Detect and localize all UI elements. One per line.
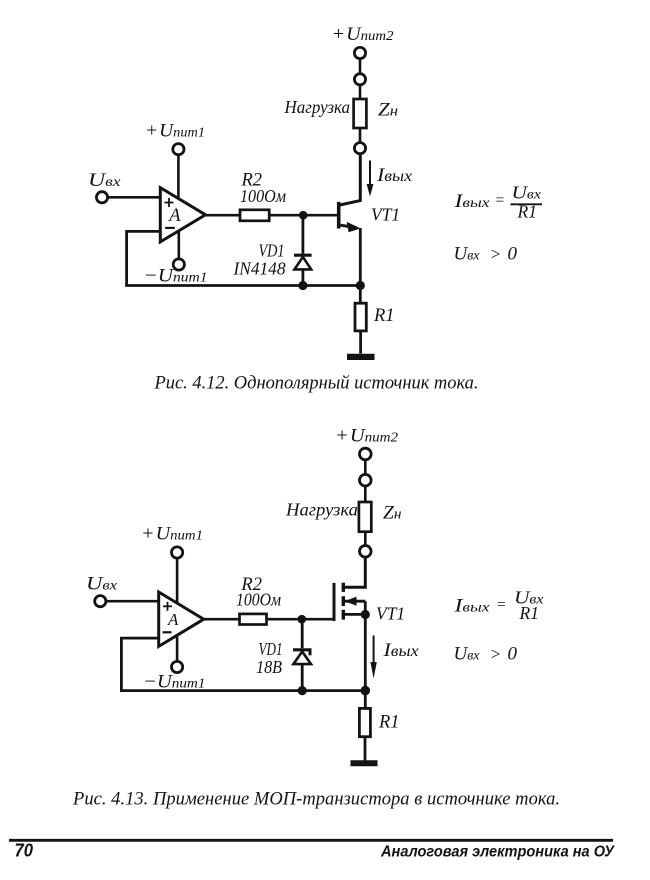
svg-text:Аналоговая электроника на ОУ: Аналоговая электроника на ОУ	[380, 844, 615, 861]
junction dot source-rail (fig 4.13)	[361, 686, 371, 696]
wire R1 to ground (fig 4.12)	[359, 331, 362, 354]
transistor VT1 base bar (fig 4.12)	[337, 202, 341, 229]
svg-text:Iвых: Iвых	[382, 640, 418, 661]
wire emitter down to rail (fig 4.12)	[359, 228, 362, 286]
caption Рис. 4.12	[154, 374, 479, 394]
wire to Zн (fig 4.13)	[364, 486, 367, 502]
wire rail to R1 (fig 4.13)	[364, 691, 367, 709]
svg-text:100Ом: 100Ом	[236, 590, 281, 610]
label R1 (fig 4.13)	[378, 713, 400, 733]
wire source down to rail (fig 4.13)	[364, 614, 367, 690]
wire junction to zener (fig 4.13)	[301, 619, 304, 648]
terminal +Uпит2 (fig 4.12)	[354, 47, 365, 58]
svg-text:VD1: VD1	[259, 241, 285, 261]
label Uвх (fig 4.12)	[88, 170, 121, 191]
op-amp A triangle (fig 4.13)	[159, 592, 204, 646]
transistor VT1 body lead with arrow (fig 4.13)	[345, 597, 365, 615]
arrow Iвых (fig 4.12)	[367, 161, 374, 197]
label +Uпит2 (fig 4.12)	[332, 24, 394, 45]
junction dot node gate (fig 4.13)	[298, 615, 307, 624]
transistor VT1 emitter with arrow (fig 4.12)	[341, 222, 361, 233]
terminal +Uпит1 (fig 4.13)	[172, 547, 183, 558]
terminal -Uпит1 (fig 4.12)	[173, 259, 184, 270]
wire feedback (fig 4.12)	[127, 231, 160, 285]
resistor R1 (fig 4.13)	[359, 708, 370, 736]
wire junction to diode (fig 4.12)	[301, 215, 304, 254]
wire terminal to load-top terminal (fig 4.12)	[359, 59, 362, 74]
resistor R2 (fig 4.12)	[240, 210, 269, 221]
terminal +Uпит2 (fig 4.13)	[360, 448, 372, 460]
wire feedback (fig 4.13)	[121, 638, 158, 691]
wire rail to R1 (fig 4.12)	[359, 286, 362, 304]
wire V+ stem (fig 4.13)	[176, 558, 179, 604]
terminal load bottom (fig 4.12)	[354, 143, 365, 154]
wire input (fig 4.13)	[106, 600, 159, 603]
terminal Uвх (fig 4.12)	[96, 192, 107, 203]
op-amp label A (fig 4.13)	[167, 610, 179, 629]
svg-text:Uвх: Uвх	[512, 183, 542, 203]
svg-text:100Ом: 100Ом	[240, 186, 286, 206]
diode VD1 triangle (fig 4.12)	[294, 257, 311, 270]
label VT1 (fig 4.12)	[371, 205, 400, 225]
terminal load top (fig 4.13)	[360, 474, 372, 486]
ground (fig 4.13)	[351, 760, 378, 766]
svg-text:Iвых: Iвых	[453, 596, 490, 617]
junction dot zener-rail (fig 4.13)	[298, 686, 307, 695]
svg-text:+Uпит1: +Uпит1	[141, 524, 203, 545]
wire terminal to load-top terminal (fig 4.13)	[364, 460, 367, 475]
transistor VT1 source lead (fig 4.13)	[345, 613, 365, 616]
label Uвх (fig 4.13)	[86, 574, 118, 595]
svg-text:Zн: Zн	[378, 100, 398, 121]
svg-text:Uвх: Uвх	[86, 574, 118, 595]
svg-text:IN4148: IN4148	[233, 259, 286, 279]
arrow Iвых (fig 4.13)	[370, 636, 376, 679]
wire R2 to gate (fig 4.13)	[267, 618, 335, 621]
op-amp plus sign (fig 4.13)	[163, 602, 172, 611]
svg-text:Zн: Zн	[383, 502, 402, 523]
transistor VT1 channel segment source (fig 4.13)	[342, 610, 345, 620]
formula Iвых = Uвх / R1 (fig 4.13)	[453, 588, 543, 624]
transistor VT1 channel segment drain (fig 4.13)	[342, 583, 345, 592]
resistor Zн load (fig 4.13)	[359, 502, 371, 532]
op-amp label A (fig 4.12)	[167, 206, 181, 226]
svg-text:Iвых: Iвых	[453, 191, 490, 212]
terminal -Uпит1 (fig 4.13)	[172, 661, 183, 672]
formula Uвх > 0 (fig 4.13)	[454, 644, 518, 665]
wire to Zн (fig 4.12)	[359, 85, 362, 99]
terminal load bottom (fig 4.13)	[360, 546, 372, 558]
wire V+ stem (fig 4.12)	[177, 155, 180, 200]
label R1 (fig 4.12)	[373, 306, 395, 326]
zener VD1 cathode bar with tick (fig 4.13)	[293, 650, 312, 656]
label VT1 (fig 4.13)	[376, 604, 405, 624]
svg-text:VT1: VT1	[371, 205, 400, 225]
svg-text:R1: R1	[519, 603, 539, 623]
svg-text:R1: R1	[378, 713, 400, 733]
junction dot node base (fig 4.12)	[299, 211, 308, 220]
svg-text:Iвых: Iвых	[376, 165, 412, 186]
label Iвых (fig 4.13)	[382, 640, 418, 661]
op-amp minus sign (fig 4.12)	[165, 227, 175, 229]
svg-text:+Uпит2: +Uпит2	[332, 24, 394, 45]
wire collector (fig 4.12)	[340, 154, 360, 205]
wire diode to rail (fig 4.12)	[301, 269, 304, 285]
wire op-amp output to R2 (fig 4.13)	[203, 618, 240, 621]
svg-text:18В: 18В	[256, 657, 282, 677]
label IN4148 (fig 4.12)	[233, 259, 286, 279]
wire input (fig 4.12)	[108, 196, 160, 199]
svg-text:VD1: VD1	[259, 639, 283, 659]
wire Zн to load-bottom terminal (fig 4.13)	[364, 532, 367, 546]
resistor R1 (fig 4.12)	[355, 303, 366, 331]
label Нагрузка (fig 4.13)	[285, 500, 358, 520]
svg-text:Uвх > 0: Uвх > 0	[454, 644, 518, 665]
label VD1 (fig 4.12)	[259, 241, 285, 261]
wire bottom rail (fig 4.13)	[120, 689, 365, 692]
terminal Uвх (fig 4.13)	[95, 596, 106, 607]
terminal +Uпит1 (fig 4.12)	[173, 144, 184, 155]
label Zн (fig 4.12)	[378, 100, 398, 121]
label Zн (fig 4.13)	[383, 502, 402, 523]
svg-text:VT1: VT1	[376, 604, 405, 624]
wire op-amp output to R2 (fig 4.12)	[205, 214, 240, 217]
label +Uпит1 (fig 4.12)	[145, 121, 205, 142]
op-amp minus sign (fig 4.13)	[163, 631, 172, 633]
zener VD1 triangle (fig 4.13)	[293, 652, 311, 665]
formula Uвх > 0 (fig 4.12)	[454, 244, 518, 265]
wire R1 to ground (fig 4.13)	[364, 737, 367, 761]
wire Zн to load-bottom terminal (fig 4.12)	[359, 128, 362, 143]
svg-text:R1: R1	[517, 202, 537, 222]
svg-text:=: =	[495, 192, 505, 209]
wire V- stem (fig 4.12)	[178, 230, 181, 259]
junction dot diode-rail (fig 4.12)	[298, 281, 307, 290]
svg-text:A: A	[167, 206, 181, 226]
label R2 (fig 4.13)	[240, 575, 262, 595]
svg-text:70: 70	[15, 841, 34, 861]
svg-text:A: A	[167, 610, 179, 629]
running title Аналоговая электроника на ОУ	[380, 844, 615, 861]
wire R2 to base (fig 4.12)	[269, 214, 337, 217]
terminal load top (fig 4.12)	[354, 74, 365, 85]
label +Uпит1 (fig 4.13)	[141, 524, 203, 545]
label VD1 (fig 4.13)	[259, 639, 283, 659]
wire bottom rail (fig 4.12)	[125, 284, 360, 287]
label R2 (fig 4.12)	[241, 171, 263, 191]
formula Iвых = Uвх / R1 (fig 4.12)	[453, 183, 542, 222]
transistor VT1 gate line (fig 4.13)	[333, 583, 336, 621]
svg-text:=: =	[496, 597, 506, 614]
footer rule	[9, 839, 613, 842]
label -Uпит1 (fig 4.13)	[143, 672, 206, 693]
junction dot source (fig 4.13)	[361, 610, 370, 619]
op-amp plus sign (fig 4.12)	[165, 198, 174, 207]
svg-text:Uвх: Uвх	[88, 170, 121, 191]
wire zener to rail (fig 4.13)	[301, 664, 304, 691]
wire drain lead (fig 4.13)	[344, 557, 365, 587]
label Нагрузка (fig 4.12)	[284, 97, 351, 117]
label Iвых (fig 4.12)	[376, 165, 412, 186]
caption Рис. 4.13	[72, 790, 560, 810]
svg-text:R1: R1	[373, 306, 395, 326]
diode VD1 cathode bar (fig 4.12)	[294, 254, 312, 257]
op-amp A triangle (fig 4.12)	[160, 188, 205, 242]
svg-text:+Uпит2: +Uпит2	[335, 426, 398, 447]
wire V- stem (fig 4.13)	[176, 634, 179, 661]
label +Uпит2 (fig 4.13)	[335, 426, 398, 447]
svg-text:Uвх > 0: Uвх > 0	[454, 244, 518, 265]
svg-text:+Uпит1: +Uпит1	[145, 121, 205, 142]
svg-text:Нагрузка: Нагрузка	[284, 97, 351, 117]
resistor Zн load (fig 4.12)	[354, 99, 367, 128]
label 100Ом (fig 4.12)	[240, 186, 286, 206]
svg-text:Рис. 4.13. Применение МОП-тран: Рис. 4.13. Применение МОП-транзистора в …	[72, 790, 560, 810]
resistor R2 (fig 4.13)	[240, 614, 267, 625]
junction dot emitter-rail (fig 4.12)	[356, 281, 365, 290]
label -Uпит1 (fig 4.12)	[144, 266, 208, 287]
svg-text:Рис. 4.12. Однополярный источн: Рис. 4.12. Однополярный источник тока.	[154, 374, 479, 394]
svg-text:Нагрузка: Нагрузка	[285, 500, 358, 520]
transistor VT1 channel segment body (fig 4.13)	[342, 596, 345, 606]
ground (fig 4.12)	[347, 354, 375, 360]
page number 70	[15, 841, 34, 861]
label 100Ом (fig 4.13)	[236, 590, 281, 610]
label 18В (fig 4.13)	[256, 657, 282, 677]
